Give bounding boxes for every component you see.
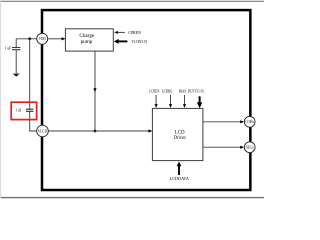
- LCD module boundary rectangle: [42, 10, 250, 190]
- svg-text:VLCD: VLCD: [38, 129, 48, 133]
- svg-text:1 uF: 1 uF: [15, 108, 22, 113]
- svg-text:VDD: VDD: [39, 37, 46, 41]
- svg-text:LCDBL: LCDBL: [162, 88, 173, 93]
- svg-text:Driver: Driver: [174, 135, 187, 141]
- wire charge pump down to VLCD net: [94, 51, 96, 131]
- pin VDD: [37, 33, 48, 44]
- signal LCDDATA thick arrow: [177, 162, 182, 176]
- page frame left: [0, 1, 2, 198]
- signal CPREN arrow into charge pump: [114, 31, 125, 34]
- capacitor C1 1uF: [12, 39, 20, 74]
- wire C2 branch vertical: [29, 39, 31, 109]
- svg-text:pump: pump: [81, 39, 93, 45]
- pin VLCD: [37, 125, 49, 137]
- svg-text:BIAS: BIAS: [179, 88, 187, 93]
- svg-text:CPREN: CPREN: [128, 30, 141, 35]
- node junction dot on VLCD wire: [94, 130, 97, 133]
- signal BIAS arrow: [183, 95, 186, 108]
- page frame bottom: [0, 197, 264, 199]
- svg-text:VLCD[3:0]: VLCD[3:0]: [131, 39, 147, 44]
- svg-text:DUTY[1:0]: DUTY[1:0]: [188, 88, 204, 93]
- wire C2 to VLCD: [30, 112, 37, 132]
- svg-text:1 uF: 1 uF: [5, 46, 12, 51]
- capacitor C2 1uF: [26, 109, 33, 111]
- arrowhead down on charge pump wire: [93, 88, 96, 92]
- LCD driver block: [152, 108, 203, 160]
- signal LCDBL arrow: [169, 95, 172, 108]
- wire capacitor C1 top to VDD: [16, 38, 37, 40]
- signal DUTY[1:0] thick arrow: [197, 96, 202, 108]
- signal VLCD[3:0] thick arrow into charge pump: [114, 39, 128, 44]
- wire VLCD to LCD driver: [48, 130, 149, 132]
- page frame top: [0, 0, 264, 2]
- wire VDD to charge pump: [48, 38, 63, 40]
- svg-text:LCDEN: LCDEN: [149, 88, 160, 93]
- red highlight box around C2: [11, 102, 36, 119]
- node junction dot at C2 branch: [28, 37, 31, 40]
- ground: [13, 74, 20, 77]
- svg-text:LCDDATA: LCDDATA: [170, 176, 189, 181]
- pin SEGx: [244, 142, 255, 153]
- pin COMx: [244, 116, 255, 127]
- svg-text:COMx: COMx: [245, 120, 254, 124]
- wire LCD driver to COMx: [203, 120, 244, 123]
- charge pump block: [65, 29, 113, 51]
- svg-text:SEGx: SEGx: [246, 146, 254, 150]
- wire LCD driver to SEGx: [203, 146, 244, 149]
- signal LCDEN arrow: [155, 95, 158, 108]
